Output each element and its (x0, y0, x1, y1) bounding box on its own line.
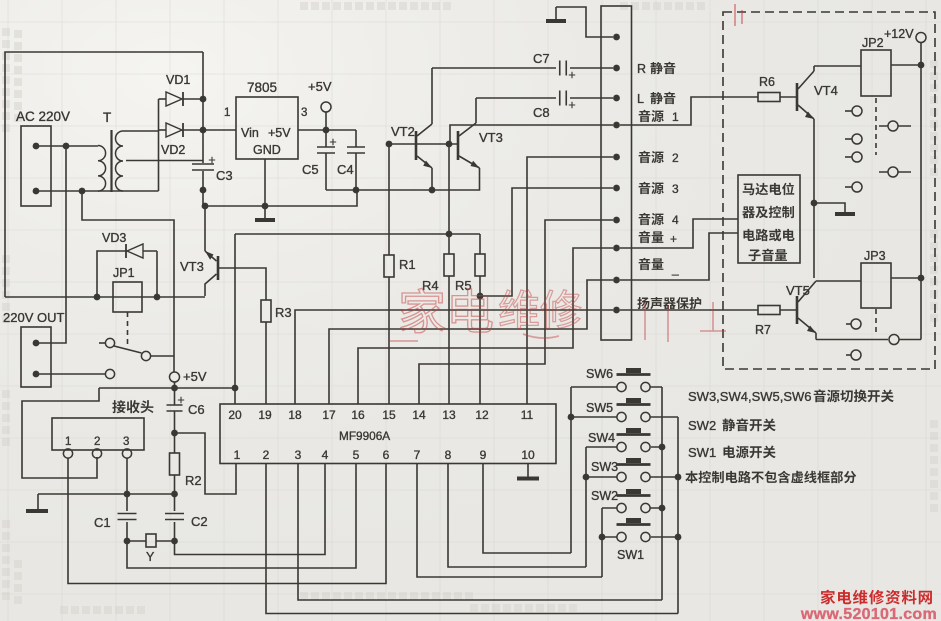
switch SW5 (617, 403, 651, 406)
label source 4 (639, 213, 651, 225)
label source 3 (639, 182, 651, 194)
node R5 bottom (477, 293, 484, 300)
wire +5V to receiver pin2 (22, 388, 99, 478)
resistor R7 (758, 306, 780, 315)
power +5V terminal (321, 102, 331, 112)
svg-text:SW6: SW6 (586, 367, 613, 381)
svg-text:SW3: SW3 (591, 460, 618, 474)
IC pin 2 wire to SW right bus (266, 464, 678, 614)
ground symbol VT4 (814, 203, 845, 212)
svg-text:19: 19 (258, 408, 272, 422)
ground symbol below 7805 (264, 206, 266, 218)
svg-text:R5: R5 (455, 278, 472, 293)
wire shared base line (389, 143, 458, 145)
IC pin 7 wire to SW1 SW2 (417, 464, 602, 578)
resistor R2 (174, 433, 176, 453)
svg-text:10: 10 (521, 448, 535, 462)
label source 1 (639, 110, 651, 122)
label volume + (639, 231, 651, 243)
capacitor C4 (355, 130, 357, 190)
svg-text:VT2: VT2 (391, 124, 415, 139)
resistor R3 (261, 300, 271, 322)
svg-text:5: 5 (353, 448, 360, 462)
node C6/R2/pin1 (171, 430, 178, 437)
svg-text:C4: C4 (337, 162, 354, 177)
power +5V node circle (170, 372, 180, 382)
IR receiver module (52, 418, 144, 450)
wire volume- from IC pin 17 (329, 280, 613, 404)
svg-text:8: 8 (445, 448, 452, 462)
svg-text:JP2: JP2 (862, 36, 884, 50)
svg-text:3: 3 (672, 182, 679, 196)
svg-text:14: 14 (412, 408, 426, 422)
capacitor C2 (174, 494, 176, 541)
label speaker protect (637, 297, 649, 309)
svg-text:220V OUT: 220V OUT (3, 310, 64, 325)
watermark site name (821, 590, 835, 605)
switch SW1 (617, 523, 651, 526)
receiver pin 1 (63, 449, 72, 458)
svg-text:MF9906A: MF9906A (339, 429, 390, 443)
node primary/relay feed (63, 143, 70, 150)
connector JP2 (861, 50, 891, 96)
svg-text:R4: R4 (422, 278, 439, 293)
resistor R1 (388, 277, 390, 404)
svg-text:GND: GND (253, 143, 281, 157)
svg-text:9: 9 (480, 448, 487, 462)
svg-text:SW4: SW4 (588, 431, 615, 445)
svg-text:L: L (637, 92, 644, 106)
wire source3 from R5/pin12 (480, 188, 613, 296)
wire C2 to IC pin 4 (175, 464, 326, 555)
svg-text:VT3: VT3 (479, 130, 503, 145)
wire relay coil line (5, 296, 205, 298)
svg-text:18: 18 (288, 408, 302, 422)
watermark red top right mark (735, 4, 742, 26)
node R2 ground (171, 491, 178, 498)
wire pull-up rail (235, 233, 480, 235)
label note dashed box (685, 471, 698, 483)
wire C1 to IC pin 5 (127, 464, 356, 569)
wire volume- to motor box (620, 233, 738, 280)
svg-text:3: 3 (301, 107, 307, 119)
svg-text:SW3,SW4,SW5,SW6: SW3,SW4,SW5,SW6 (688, 389, 812, 404)
svg-text:_: _ (671, 262, 679, 276)
svg-text:Y: Y (146, 550, 155, 564)
crystal Y (127, 540, 146, 542)
node +5V / C5 (323, 127, 330, 134)
wire Vin (203, 129, 236, 131)
svg-text:4: 4 (322, 448, 329, 462)
wire secondary center tap to C3 (126, 160, 203, 162)
wire SW6 SW5 left bus (571, 387, 617, 553)
node base R1 (386, 141, 393, 148)
node C1 bottom (124, 538, 131, 545)
wire IC pin 10 ground (527, 464, 529, 478)
svg-text:JP1: JP1 (113, 266, 135, 280)
node C2 bottom (171, 538, 178, 545)
node base R4 (446, 141, 453, 148)
wire receiver pin1 to IC pin 6 (68, 458, 386, 584)
svg-text:6: 6 (383, 448, 390, 462)
ground symbol left (37, 494, 39, 509)
svg-text:C5: C5 (302, 162, 319, 177)
svg-text:R6: R6 (759, 75, 775, 89)
wire source1 to terminal (450, 97, 758, 144)
svg-text:SW1: SW1 (617, 548, 644, 562)
node VT3 emitter on ground rail (202, 203, 209, 210)
terminal mute ground wire (556, 7, 613, 37)
node VT5 collector +12V (918, 275, 925, 282)
wire source4 from IC pin 14 (419, 220, 613, 404)
svg-text:15: 15 (382, 408, 396, 422)
svg-text:+5V: +5V (268, 126, 291, 140)
transistor VT3 relay driver PNP (204, 206, 206, 251)
svg-text:R: R (637, 62, 646, 76)
relay contact NO (99, 342, 105, 344)
svg-text:SW2: SW2 (591, 489, 618, 503)
svg-text:3: 3 (295, 448, 302, 462)
JP3 contact block (846, 323, 851, 325)
output terminal strip (601, 6, 632, 340)
svg-text:1: 1 (65, 436, 71, 448)
node primary bottom tap (79, 188, 86, 195)
JP3 actuator dashed (875, 309, 877, 336)
wire SW2 SW1 left bus (602, 508, 617, 577)
node rectifier output VD1 (200, 96, 207, 103)
resistor R6 (758, 93, 780, 102)
node rectifier output VD2 / Vin (200, 127, 207, 134)
svg-text:+5V: +5V (183, 369, 207, 384)
svg-text:VT5: VT5 (786, 283, 810, 298)
dashed control box (723, 12, 935, 369)
svg-text:SW1: SW1 (688, 445, 716, 460)
node C4/C5 ground (353, 187, 360, 194)
transistor VT4 (780, 96, 797, 98)
svg-text:VT3: VT3 (180, 259, 204, 274)
svg-text:1: 1 (672, 110, 679, 124)
JP2 contact block (845, 110, 852, 112)
wire AC to transformer primary top (36, 145, 98, 147)
node VT4 emitter ground tap (811, 200, 818, 207)
wire ground rail under 7805 (205, 190, 357, 206)
switch SW2 (617, 494, 651, 497)
capacitor C8 (476, 97, 556, 99)
svg-text:+12V: +12V (884, 27, 914, 41)
link JP1 to contacts dashed (127, 312, 129, 345)
transistor VT5 (780, 309, 797, 311)
svg-text:SW2: SW2 (688, 418, 716, 433)
relay contact NC (105, 369, 114, 378)
wire speaker protect from IC pin 18 (295, 310, 758, 404)
wire emitter rail to VT2 VT3 (356, 168, 480, 190)
IC MF9906A (220, 404, 556, 464)
wire JP2 to +12V rail (891, 65, 921, 278)
resistor R5 (479, 234, 481, 254)
svg-text:7: 7 (414, 448, 421, 462)
ground symbol mute (546, 19, 566, 23)
IC pin 8 wire to SW3 SW4 (448, 464, 586, 568)
svg-text:VD3: VD3 (102, 231, 126, 245)
svg-text:JP3: JP3 (864, 249, 886, 263)
receiver pin 3 (122, 449, 131, 458)
node receiver pin3 (124, 491, 131, 498)
JP2 actuator dashed (875, 98, 877, 155)
svg-text:Vin: Vin (241, 126, 259, 140)
capacitor C5 (326, 130, 356, 190)
wire 220V OUT lower to relay contact (36, 373, 105, 375)
wire 7805 GND lead (264, 159, 266, 206)
svg-text:C3: C3 (216, 168, 233, 183)
svg-text:R7: R7 (755, 323, 771, 337)
wire R3 to IC pin 19 (265, 322, 267, 404)
220V OUT terminal block (21, 327, 51, 387)
wire source2 from IC pin 11 (527, 157, 613, 404)
transformer T (98, 146, 106, 192)
wire +5V rail (99, 382, 235, 388)
svg-text:VD1: VD1 (166, 73, 190, 87)
diode VD2 (159, 129, 167, 131)
IC pin 3 wire to SW right bus (298, 464, 662, 601)
node GND lead (262, 203, 269, 210)
wire junction to IC pin 1 (175, 433, 237, 494)
wire SW6 SW4 SW2 right bus (650, 387, 662, 600)
connector JP3 (861, 263, 891, 308)
capacitor C7 (432, 67, 556, 69)
regulator 7805 (236, 97, 298, 159)
svg-text:R2: R2 (185, 473, 202, 488)
node JP1 left (94, 294, 101, 301)
capacitor C6 (174, 388, 176, 433)
wire secondary right riser to diodes (158, 99, 160, 191)
node JP1 right (154, 294, 161, 301)
motor volume control box (738, 175, 800, 263)
capacitor C1 (126, 494, 128, 541)
wire AC to primary bottom / secondary return (36, 190, 159, 192)
svg-text:C2: C2 (191, 514, 208, 529)
wire volume+ to motor box (620, 219, 738, 248)
switch SW4 (617, 433, 651, 436)
svg-text:C6: C6 (188, 402, 205, 417)
node +12V (918, 62, 925, 69)
svg-text:www.520101.com: www.520101.com (800, 606, 937, 621)
svg-text:4: 4 (672, 213, 679, 227)
node R4 rail (446, 231, 453, 238)
wire AC switched live down to 220V OUT (36, 146, 66, 343)
svg-text:17: 17 (322, 408, 336, 422)
node +5V rail (171, 385, 178, 392)
label source 2 (639, 151, 651, 163)
svg-text:VT4: VT4 (814, 83, 838, 98)
svg-text:VD2: VD2 (161, 143, 185, 157)
diode VD1 (159, 98, 167, 100)
relay coil JP1 (113, 282, 142, 312)
svg-text:11: 11 (521, 408, 534, 422)
AC 220V input terminal block (21, 126, 51, 206)
svg-text:16: 16 (351, 408, 365, 422)
svg-text:13: 13 (442, 408, 456, 422)
svg-text:+5V: +5V (308, 79, 332, 94)
wire volume+ from IC pin 16 (358, 248, 613, 404)
switch SW6 (617, 373, 651, 376)
node VT2 emitter (429, 187, 436, 194)
receiver pin 2 (92, 449, 101, 458)
terminal pins (613, 34, 620, 41)
svg-text:T: T (103, 110, 111, 125)
wire SW4 SW3 left bus (586, 447, 617, 567)
wire IC pin 20 +5V riser (234, 234, 236, 404)
switch SW3 (617, 463, 651, 466)
resistor R4 (448, 276, 450, 404)
wire primary tap to +5V relay node (82, 191, 174, 372)
transistor VT2 (415, 131, 418, 160)
svg-text:SW5: SW5 (586, 401, 613, 415)
transistor VT3 mute (457, 131, 460, 160)
node pin20 +5V (232, 385, 239, 392)
svg-text:R1: R1 (399, 257, 416, 272)
wire SW5 SW3 SW1 right bus (650, 417, 678, 614)
capacitor C3 (192, 164, 214, 170)
svg-text:2: 2 (672, 151, 679, 165)
wire top-left outer loop (AC live to rectifier node) (5, 52, 203, 297)
svg-text:12: 12 (475, 408, 489, 422)
relay contact common (141, 351, 150, 360)
IC pin 9 wire to SW5 SW6 (483, 464, 571, 554)
wire 7805 output (298, 129, 356, 131)
svg-text:C8: C8 (533, 105, 550, 120)
ground rail left (38, 493, 175, 495)
svg-text:R3: R3 (275, 305, 292, 320)
svg-text:3: 3 (123, 436, 129, 448)
label volume - (639, 258, 651, 270)
node C3 / secondary return (200, 187, 207, 194)
wire secondary top lead (123, 130, 159, 132)
wire R2 to ground rail (174, 475, 176, 494)
svg-text:2: 2 (94, 436, 100, 448)
svg-text:C1: C1 (94, 515, 111, 530)
svg-text:1: 1 (224, 107, 230, 119)
wire receiver pin3 down (126, 458, 128, 494)
svg-text:7805: 7805 (247, 80, 277, 95)
svg-text:+: + (670, 232, 677, 246)
svg-text:1: 1 (234, 448, 241, 462)
wire JP3 to +12V (891, 278, 921, 340)
svg-text:2: 2 (263, 448, 270, 462)
wire rectifier column (202, 52, 204, 206)
relay contact lever (114, 346, 142, 353)
diode VD3 (97, 251, 126, 297)
watermark red center (401, 288, 492, 332)
svg-text:AC 220V: AC 220V (16, 109, 70, 124)
svg-text:20: 20 (228, 408, 242, 422)
svg-text:C7: C7 (533, 51, 550, 66)
